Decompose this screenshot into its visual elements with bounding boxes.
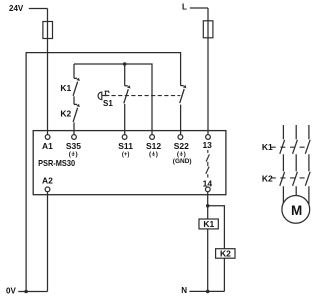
svg-text:(GND): (GND) bbox=[173, 158, 192, 165]
svg-text:24V: 24V bbox=[9, 4, 24, 13]
svg-text:S11: S11 bbox=[118, 141, 133, 151]
svg-text:S35: S35 bbox=[66, 141, 81, 151]
svg-text:): ) bbox=[76, 151, 78, 158]
svg-text:13: 13 bbox=[202, 140, 212, 150]
svg-text:(: ( bbox=[149, 151, 152, 158]
svg-text:PSR-MS30: PSR-MS30 bbox=[38, 158, 75, 168]
svg-text:14: 14 bbox=[203, 179, 213, 189]
svg-text:K2: K2 bbox=[220, 249, 231, 259]
svg-text:K1: K1 bbox=[262, 142, 273, 152]
svg-text:): ) bbox=[156, 151, 158, 158]
svg-text:K1: K1 bbox=[203, 219, 214, 229]
svg-text:S12: S12 bbox=[146, 141, 161, 151]
svg-text:(: ( bbox=[177, 151, 180, 158]
svg-text:S1: S1 bbox=[103, 99, 113, 108]
svg-text:S22: S22 bbox=[174, 141, 189, 151]
svg-text:A1: A1 bbox=[42, 141, 53, 151]
svg-text:): ) bbox=[184, 151, 186, 158]
svg-text:K1: K1 bbox=[60, 83, 71, 93]
svg-text:M: M bbox=[291, 203, 302, 218]
svg-text:L: L bbox=[182, 3, 187, 12]
svg-text:A2: A2 bbox=[42, 175, 53, 185]
svg-text:(: ( bbox=[69, 151, 72, 158]
svg-text:0V: 0V bbox=[6, 286, 16, 295]
svg-text:N: N bbox=[181, 286, 187, 295]
svg-text:K2: K2 bbox=[60, 108, 71, 118]
svg-text:K2: K2 bbox=[262, 174, 273, 184]
svg-text:(+): (+) bbox=[122, 152, 130, 158]
